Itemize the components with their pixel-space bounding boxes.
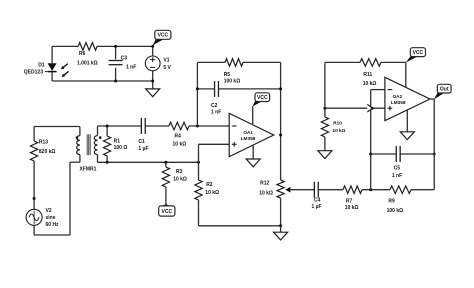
svg-text:QED123: QED123 [24, 69, 43, 75]
svg-text:1.001 kΩ: 1.001 kΩ [77, 61, 98, 67]
svg-text:10 kΩ: 10 kΩ [363, 81, 377, 87]
svg-text:R10: R10 [333, 121, 342, 126]
svg-text:10 kΩ: 10 kΩ [333, 128, 346, 133]
svg-text:100 kΩ: 100 kΩ [387, 208, 404, 214]
svg-text:C3: C3 [121, 56, 128, 62]
svg-text:10 kΩ: 10 kΩ [345, 205, 359, 211]
svg-text:100 kΩ: 100 kΩ [224, 79, 241, 85]
svg-text:R7: R7 [346, 199, 353, 205]
svg-text:R2: R2 [206, 182, 213, 188]
svg-text:R5: R5 [224, 72, 231, 78]
svg-text:LM358: LM358 [241, 136, 256, 141]
svg-text:R11: R11 [363, 72, 372, 78]
svg-text:C4: C4 [314, 198, 321, 204]
svg-text:Out: Out [440, 86, 449, 92]
svg-text:sine: sine [46, 215, 56, 221]
svg-text:R4: R4 [175, 133, 182, 139]
svg-text:5 V: 5 V [163, 65, 171, 71]
svg-text:820 kΩ: 820 kΩ [39, 149, 56, 155]
svg-text:60 Hz: 60 Hz [46, 222, 60, 228]
svg-text:10 kΩ: 10 kΩ [173, 177, 187, 183]
svg-text:D1: D1 [38, 62, 45, 68]
svg-text:1 nF: 1 nF [392, 173, 402, 179]
svg-text:R9: R9 [388, 199, 395, 205]
svg-text:VCC: VCC [257, 95, 268, 101]
svg-text:1 µF: 1 µF [138, 146, 148, 152]
svg-text:1 µF: 1 µF [312, 204, 322, 210]
svg-text:OA1: OA1 [243, 130, 253, 135]
svg-text:10 kΩ: 10 kΩ [259, 190, 273, 196]
svg-text:R6: R6 [79, 51, 86, 57]
svg-text:LM358: LM358 [391, 100, 406, 105]
svg-text:R1: R1 [114, 138, 121, 144]
svg-text:C2: C2 [211, 103, 218, 109]
svg-text:R3: R3 [176, 169, 183, 175]
svg-text:10 kΩ: 10 kΩ [173, 141, 187, 147]
svg-text:1 nF: 1 nF [211, 109, 221, 115]
svg-text:10 kΩ: 10 kΩ [205, 190, 219, 196]
svg-text:VCC: VCC [158, 33, 169, 39]
svg-text:V2: V2 [46, 208, 52, 214]
svg-text:V1: V1 [163, 57, 169, 63]
svg-text:C1: C1 [138, 139, 145, 145]
svg-text:100 Ω: 100 Ω [114, 145, 128, 151]
svg-text:OA2: OA2 [393, 94, 403, 99]
svg-text:VCC: VCC [162, 209, 173, 215]
svg-text:VCC: VCC [413, 50, 424, 56]
svg-text:C5: C5 [394, 166, 401, 172]
svg-text:R13: R13 [39, 139, 48, 145]
svg-text:XFMR1: XFMR1 [80, 166, 97, 172]
svg-text:1 nF: 1 nF [126, 65, 136, 71]
svg-text:R12: R12 [260, 181, 269, 187]
